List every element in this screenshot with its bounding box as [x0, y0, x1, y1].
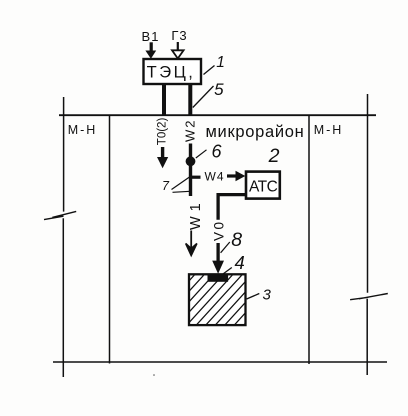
leader line from label 4 [222, 268, 232, 275]
svg-text:1: 1 [216, 54, 225, 71]
svg-text:W1: W1 [188, 198, 204, 230]
svg-text:3: 3 [263, 287, 272, 304]
pipe V0 arrow end [212, 243, 224, 274]
gas inlet arrow Г3 [172, 42, 184, 59]
leader line to label 6 [196, 150, 207, 158]
speck [153, 374, 155, 376]
svg-text:ТЭЦ,: ТЭЦ, [147, 64, 196, 82]
pipe V0 elbow from АТС [218, 195, 246, 220]
heat plant box ТЭЦ (1) [144, 59, 202, 84]
telephone exchange box АТС (2) [246, 172, 280, 199]
svg-text:7: 7 [162, 179, 170, 193]
right street inner line [308, 115, 310, 364]
svg-text:2: 2 [268, 145, 280, 167]
svg-text:W4: W4 [205, 170, 225, 184]
svg-text:8: 8 [231, 229, 242, 251]
break mark on left street line [44, 211, 76, 219]
left street outer line [62, 97, 64, 377]
svg-text:Т0(2): Т0(2) [157, 118, 169, 146]
svg-text:5: 5 [214, 80, 224, 99]
node 6 dot [186, 156, 196, 166]
svg-text:4: 4 [235, 252, 245, 273]
heat input unit black rect 4 [208, 274, 229, 282]
leader line to label 5 [193, 86, 214, 108]
svg-text:В1: В1 [142, 29, 160, 44]
branch stub W4 [192, 176, 201, 179]
right street outer line [366, 94, 368, 375]
top boundary line [59, 114, 376, 116]
svg-text:Г3: Г3 [171, 28, 187, 43]
left street inner line [109, 115, 111, 364]
svg-text:V0: V0 [212, 219, 227, 241]
water pipe W2 lower segment [189, 144, 192, 197]
building box 3 with hatching [148, 274, 291, 326]
water inlet arrow В1 [145, 42, 156, 59]
heating pipe T0(2) upper segment [162, 84, 166, 116]
svg-text:АТС: АТС [249, 179, 278, 196]
water service arrow W4 [227, 171, 245, 182]
leader line from label 3 [247, 294, 260, 300]
svg-text:М-Н: М-Н [68, 123, 98, 137]
bottom boundary line [53, 361, 387, 363]
svg-text:М-Н: М-Н [314, 123, 344, 137]
leader line to label 1 [204, 66, 215, 75]
leader line from label 8 [221, 242, 230, 253]
svg-text:6: 6 [211, 142, 222, 162]
heating pipe T0(2) arrow end [157, 147, 168, 168]
leader lines from label 7 [172, 177, 191, 192]
distribution arrow W1 [186, 231, 197, 256]
svg-text:W2: W2 [183, 119, 198, 143]
break mark on right street line [350, 294, 388, 300]
svg-text:микрорайон: микрорайон [206, 123, 305, 141]
water pipe W2 upper segment [188, 84, 192, 116]
